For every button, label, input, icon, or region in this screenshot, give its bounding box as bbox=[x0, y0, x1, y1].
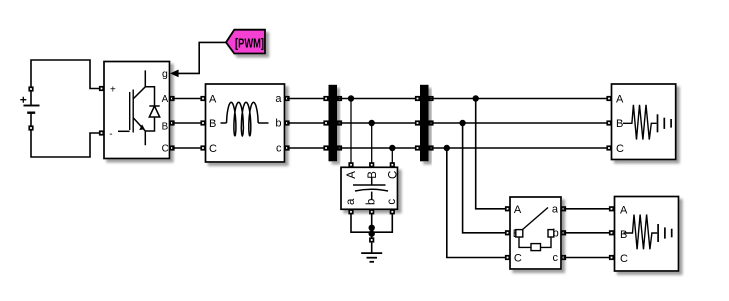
load2 three-phase RLC load block body bbox=[615, 197, 679, 272]
port squares on load2 bbox=[609, 206, 614, 260]
inductor L1 block body bbox=[206, 84, 285, 162]
port squares on capacitor bank bbox=[348, 162, 395, 214]
svg-text:c: c bbox=[276, 143, 282, 155]
wire: busbar1 to busbar2 phase B bbox=[337, 122, 420, 124]
wire: busbar1 to busbar2 phase C bbox=[337, 147, 420, 149]
inductor L1 coil icon bbox=[221, 102, 269, 136]
capacitor bank rotated port labels bbox=[345, 171, 400, 205]
svg-text:B: B bbox=[209, 118, 216, 130]
wire: PWM tag to inverter g with arrowhead bbox=[170, 42, 226, 77]
port squares on inductor edges bbox=[200, 96, 289, 151]
svg-text:B: B bbox=[620, 229, 627, 241]
svg-text:B: B bbox=[367, 171, 379, 179]
wire: capacitor outputs joined to neutral bbox=[351, 214, 392, 240]
svg-text:C: C bbox=[620, 253, 628, 265]
node tap A to capacitor bank bbox=[348, 95, 354, 164]
wire: busbar2 to load1 phase B bbox=[429, 122, 612, 124]
inverter port labels + - g A B C bbox=[109, 68, 168, 154]
port squares on breaker edges bbox=[505, 206, 566, 260]
load1 port labels bbox=[616, 94, 624, 156]
svg-text:c: c bbox=[553, 252, 559, 264]
node tap C to capacitor bank bbox=[389, 145, 395, 164]
svg-text:C: C bbox=[514, 253, 522, 265]
wire: inverter B to inductor B bbox=[172, 122, 206, 124]
wire: inverter A to inductor A bbox=[172, 98, 206, 100]
load2 RLC icon bbox=[624, 215, 672, 250]
wire: busbar2 to load1 phase A bbox=[429, 98, 612, 100]
svg-text:C: C bbox=[387, 171, 399, 179]
wire: DC source negative loop to inverter - bbox=[31, 128, 101, 157]
inverter block U1 body bbox=[104, 62, 170, 159]
inductor port labels A B C a b c bbox=[209, 93, 282, 155]
port squares on inverter edges bbox=[99, 86, 175, 151]
node tap phase A to breaker bbox=[473, 95, 511, 209]
svg-text:A: A bbox=[616, 94, 624, 106]
svg-text:c: c bbox=[386, 199, 398, 205]
load2 port labels bbox=[620, 204, 628, 265]
svg-text:a: a bbox=[345, 198, 357, 205]
svg-text:+: + bbox=[110, 84, 116, 95]
svg-text:-: - bbox=[109, 129, 112, 140]
busbar B1 bbox=[323, 85, 342, 162]
capacitor C1 icon bbox=[353, 177, 388, 200]
svg-text:b: b bbox=[366, 199, 378, 205]
node tap phase C to breaker bbox=[444, 145, 510, 258]
transistor Q1 IGBT icon inside inverter bbox=[118, 70, 145, 145]
DC voltage source battery bbox=[20, 86, 39, 130]
wire: DC source positive loop to inverter + bbox=[31, 60, 101, 89]
breaker CB1 switch icon bbox=[516, 208, 554, 251]
wire: inverter C to inductor C bbox=[172, 147, 206, 149]
diode D1 icon inside inverter bbox=[145, 87, 159, 131]
svg-text:A: A bbox=[162, 94, 169, 105]
svg-text:C: C bbox=[162, 143, 169, 154]
svg-text:B: B bbox=[616, 118, 623, 130]
wire: breaker c to load2 C bbox=[564, 257, 615, 259]
ground G1 bbox=[361, 237, 382, 261]
wire: inductor a to busbar1 bbox=[287, 98, 329, 100]
svg-text:a: a bbox=[552, 203, 559, 215]
svg-text:[PWM]: [PWM] bbox=[235, 37, 264, 51]
svg-text:A: A bbox=[620, 204, 628, 216]
svg-text:C: C bbox=[616, 143, 624, 155]
wire: inductor b to busbar1 bbox=[287, 122, 329, 124]
svg-text:A: A bbox=[346, 171, 358, 179]
breaker CB1 port labels bbox=[513, 203, 559, 264]
node tap phase B to breaker bbox=[459, 120, 510, 233]
svg-text:B: B bbox=[162, 122, 169, 133]
busbar B2 bbox=[415, 85, 434, 162]
load1 RLC icon bbox=[623, 105, 671, 140]
wire: breaker b to load2 B bbox=[564, 232, 615, 234]
svg-text:C: C bbox=[209, 143, 217, 155]
svg-text:b: b bbox=[275, 118, 281, 130]
capacitor bank C1 block body bbox=[341, 167, 398, 209]
svg-text:A: A bbox=[209, 94, 217, 106]
wire: busbar1 to busbar2 phase A bbox=[337, 98, 420, 100]
node: neutral junction dots bbox=[369, 225, 375, 237]
svg-text:A: A bbox=[514, 204, 522, 216]
node tap B to capacitor bank bbox=[369, 120, 375, 164]
svg-text:a: a bbox=[275, 93, 282, 105]
wire: busbar2 to load1 phase C bbox=[429, 147, 612, 149]
wire: inductor c to busbar1 bbox=[287, 147, 329, 149]
port squares on load1 bbox=[606, 96, 611, 151]
breaker CB1 block body bbox=[510, 197, 561, 269]
wire: breaker a to load2 A bbox=[564, 208, 615, 210]
load1 three-phase RLC load block body bbox=[612, 84, 676, 160]
From tag [PWM] bbox=[226, 30, 265, 54]
svg-text:g: g bbox=[162, 68, 168, 80]
